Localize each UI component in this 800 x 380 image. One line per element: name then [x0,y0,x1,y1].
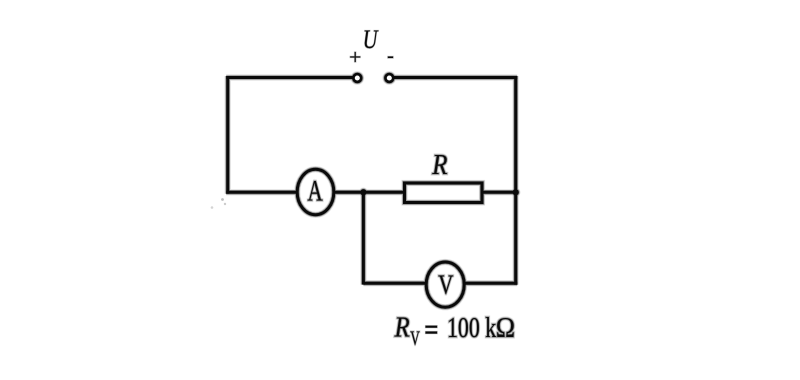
svg-text:R: R [431,148,448,180]
svg-text:A: A [308,174,323,208]
svg-text:V: V [410,327,420,349]
svg-text:V: V [438,270,453,300]
svg-text:U: U [363,26,380,55]
svg-text:+: + [349,45,361,69]
svg-text:100 k: 100 k [447,314,497,344]
svg-text:Ω: Ω [496,312,515,343]
svg-text:-: - [387,45,394,67]
svg-text:R: R [394,312,410,343]
